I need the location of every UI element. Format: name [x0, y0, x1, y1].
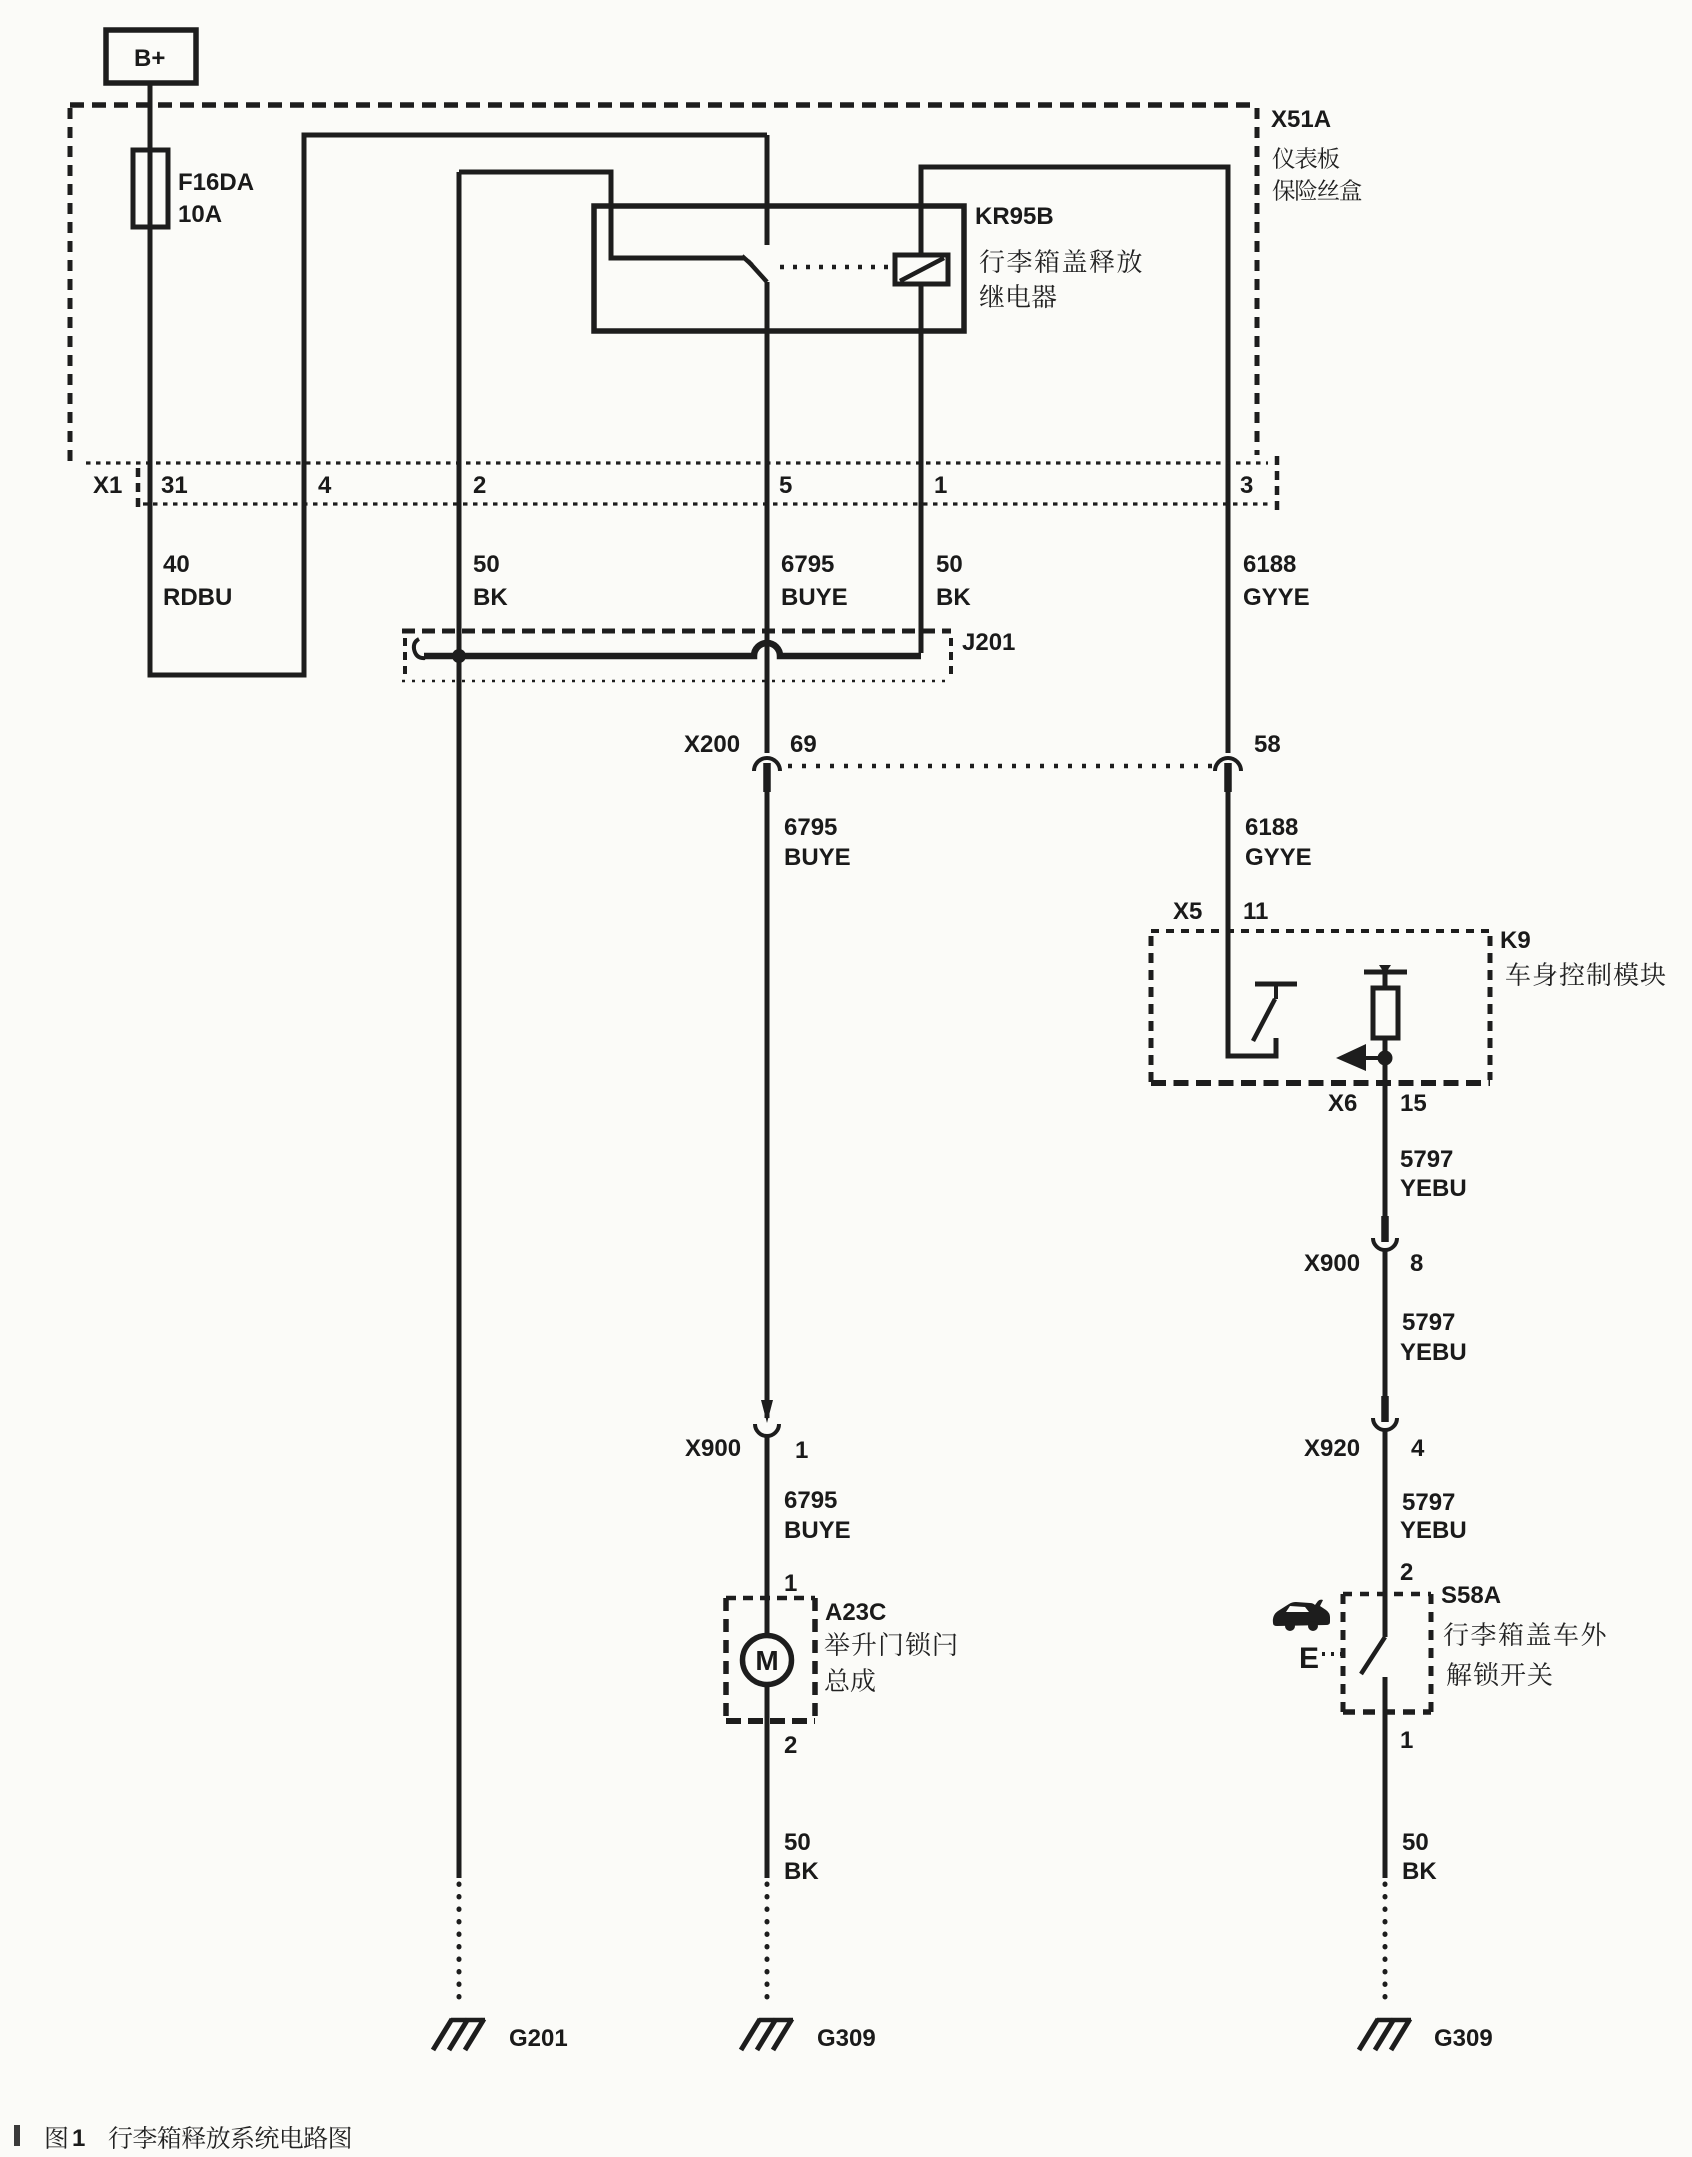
ground G201 at x=459 [457, 1884, 462, 2008]
wire relay NC contact from X1 pin 2 [459, 172, 744, 258]
relay actuation dotted link [780, 265, 888, 270]
CJK label body control module [1506, 962, 1665, 986]
svg-text:15: 15 [1400, 1090, 1427, 1117]
K9 internal switch blade [1253, 999, 1275, 1041]
svg-text:X900: X900 [1304, 1250, 1360, 1277]
car icon [1273, 1600, 1330, 1626]
connector X200 pin 58 [1215, 758, 1241, 771]
wire coil to X1 pin 1 (down) and to pin 3 (up and right) [921, 167, 1228, 753]
CJK label trunk lid exterior [1444, 1622, 1606, 1646]
svg-text:1: 1 [795, 1437, 808, 1464]
svg-text:K9: K9 [1500, 927, 1531, 954]
svg-text:G309: G309 [1434, 2025, 1493, 2052]
svg-text:B+: B+ [134, 45, 165, 72]
svg-text:6795: 6795 [784, 1487, 837, 1514]
svg-text:BUYE: BUYE [784, 844, 851, 871]
caption tick [14, 2125, 20, 2146]
svg-text:11: 11 [1243, 898, 1268, 925]
X200 dotted pairing line [788, 764, 1212, 769]
CJK label yi-biao-ban (instrument panel) [1273, 147, 1340, 169]
svg-text:GYYE: GYYE [1243, 584, 1310, 611]
svg-text:2: 2 [1400, 1559, 1413, 1586]
svg-text:4: 4 [318, 472, 332, 499]
fuse F16DA 10A [133, 150, 168, 227]
splice pack J201 dashed box [402, 629, 951, 634]
svg-text:G201: G201 [509, 2025, 568, 2052]
wire 6795 BUYE down to X900 [765, 792, 770, 1418]
S58A switch blade [1361, 1637, 1385, 1674]
connector X900 pin 1 [761, 1400, 773, 1423]
CJK label unlock switch [1447, 1662, 1552, 1686]
instrument panel fuse box X51A dashed border [70, 102, 1257, 108]
battery feed symbol B+ [106, 30, 196, 83]
svg-text:BK: BK [473, 584, 508, 611]
svg-text:J201: J201 [962, 629, 1015, 656]
svg-text:X51A: X51A [1271, 106, 1331, 133]
svg-text:2: 2 [473, 472, 486, 499]
svg-text:M: M [755, 1645, 778, 1676]
svg-text:6188: 6188 [1243, 551, 1296, 578]
svg-text:1: 1 [1400, 1727, 1413, 1754]
svg-text:A23C: A23C [825, 1599, 886, 1626]
signal direction arrow [1366, 1056, 1385, 1060]
K9 output wire X6-15 [1383, 1038, 1388, 1216]
svg-text:2: 2 [784, 1732, 797, 1759]
wire: B+ through fuse to X1 pin 31, loop back up via pin 4 to relay common [150, 83, 767, 675]
motor M circle [743, 1636, 792, 1685]
junction dot J201/pin2 [452, 649, 466, 663]
K9 internal wire from X5-11 to switch pivot [1228, 930, 1276, 1056]
CJK caption Fig [47, 2127, 68, 2149]
svg-text:1: 1 [784, 1570, 797, 1597]
svg-text:E: E [1299, 1642, 1319, 1675]
junction dot [1378, 1051, 1393, 1066]
svg-text:50: 50 [1402, 1829, 1429, 1856]
wire 6188 GYYE down to K9 [1226, 792, 1231, 930]
svg-text:4: 4 [1411, 1435, 1425, 1462]
svg-text:5797: 5797 [1402, 1489, 1455, 1516]
svg-text:X5: X5 [1173, 898, 1202, 925]
trunk lid exterior release switch S58A dashed box [1343, 1592, 1431, 1597]
svg-text:X900: X900 [685, 1435, 741, 1462]
svg-text:50: 50 [936, 551, 963, 578]
connector X920 pin 4 [1381, 1396, 1389, 1422]
svg-text:KR95B: KR95B [975, 203, 1054, 230]
ground G309 at x=1385 [1383, 1884, 1388, 2008]
svg-text:BUYE: BUYE [784, 1517, 851, 1544]
svg-text:69: 69 [790, 731, 817, 758]
CJK label trunk lid release [980, 249, 1142, 273]
relay coil [895, 255, 948, 284]
svg-text:F16DA: F16DA [178, 169, 254, 196]
connector row X1 [86, 461, 1268, 464]
connector X900 pin 8 [1381, 1216, 1389, 1242]
svg-text:50: 50 [473, 551, 500, 578]
svg-text:1: 1 [72, 2125, 85, 2152]
svg-text:RDBU: RDBU [163, 584, 232, 611]
relay switch blade [748, 261, 767, 282]
J201 bus bar with hop over BUYE wire [424, 643, 921, 656]
wire relay common feed (from pin 4 loop) [765, 135, 770, 245]
svg-text:5: 5 [779, 472, 792, 499]
svg-text:6795: 6795 [781, 551, 834, 578]
svg-text:3: 3 [1240, 472, 1253, 499]
svg-text:6795: 6795 [784, 814, 837, 841]
svg-text:31: 31 [161, 472, 188, 499]
svg-text:10A: 10A [178, 201, 222, 228]
svg-text:BUYE: BUYE [781, 584, 848, 611]
svg-text:6188: 6188 [1245, 814, 1298, 841]
CJK label bao-xian-si-he (fuse box) [1273, 179, 1362, 201]
svg-text:G309: G309 [817, 2025, 876, 2052]
ground G309 at x=767 [765, 1884, 770, 2008]
svg-text:YEBU: YEBU [1400, 1339, 1467, 1366]
K9 internal supply contact [1364, 970, 1407, 975]
svg-text:BK: BK [784, 1858, 819, 1885]
svg-text:5797: 5797 [1402, 1309, 1455, 1336]
relay KR95B box [594, 206, 964, 331]
CJK label liftgate latch [825, 1632, 957, 1656]
svg-text:GYYE: GYYE [1245, 844, 1312, 871]
svg-text:8: 8 [1410, 1250, 1423, 1277]
svg-text:YEBU: YEBU [1400, 1517, 1467, 1544]
svg-text:X200: X200 [684, 731, 740, 758]
CJK label assembly [825, 1668, 875, 1692]
wire 50 BK from X1 pin 2 down to ground G201 [457, 172, 462, 1878]
wire motor to ground lead [765, 1684, 770, 1878]
svg-text:50: 50 [784, 1829, 811, 1856]
CJK label relay [980, 284, 1056, 308]
svg-text:YEBU: YEBU [1400, 1175, 1467, 1202]
svg-text:5797: 5797 [1400, 1146, 1453, 1173]
relay NC contact tick [742, 256, 752, 265]
S58A lower terminal to pin 1 [1383, 1677, 1388, 1878]
K9 internal switch fixed contact [1255, 982, 1297, 987]
svg-text:S58A: S58A [1441, 1582, 1501, 1609]
CJK caption trunk release system circuit diagram [109, 2126, 351, 2149]
svg-text:BK: BK [936, 584, 971, 611]
K9 internal resistor [1373, 988, 1398, 1038]
svg-text:X6: X6 [1328, 1090, 1357, 1117]
svg-text:1: 1 [934, 472, 947, 499]
svg-text:BK: BK [1402, 1858, 1437, 1885]
svg-text:X1: X1 [93, 472, 122, 499]
liftgate latch assembly A23C dashed box [726, 1596, 815, 1601]
svg-text:40: 40 [163, 551, 190, 578]
svg-text:58: 58 [1254, 731, 1281, 758]
body control module K9 dashed box [1151, 929, 1490, 933]
svg-text:X920: X920 [1304, 1435, 1360, 1462]
relay switch output wire to X1 pin 5 [765, 282, 770, 753]
